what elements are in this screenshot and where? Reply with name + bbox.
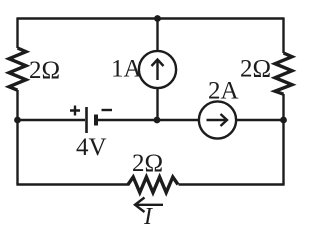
wire middle left segment [18,119,86,121]
battery V1 long plate (+) [85,107,88,133]
wire right vertical upper [282,17,284,53]
svg-text:2Ω: 2Ω [240,56,271,83]
wire bottom left segment [16,183,129,185]
svg-text:4V: 4V [76,134,107,161]
wire 1A branch upper [156,19,158,52]
wire left vertical upper (top corner to resistor) [16,17,18,48]
resistor R3 2ohm bottom [128,177,178,193]
wire bottom right segment [179,183,285,185]
wire top horizontal [18,17,284,19]
current source U1 1A circle [139,51,176,88]
arrow inside 2A (right) [207,119,227,121]
svg-text:1A: 1A [111,56,142,83]
node junction top (1A branch) [154,15,161,22]
wire middle center segment [98,119,199,121]
svg-text:2Ω: 2Ω [132,150,163,177]
svg-text:2A: 2A [208,78,239,105]
wire right vertical lower [282,94,284,185]
minus sign [102,109,113,111]
plus sign [70,106,80,116]
current arrow I (left) [136,204,163,206]
battery V1 short plate (-) [94,115,98,126]
node junction left-middle [14,117,21,124]
svg-text:I: I [143,204,153,230]
wire left vertical lower (resistor to bottom corner) [16,90,18,185]
node junction right-middle [280,117,287,124]
node junction middle (battery/2A) [154,117,161,124]
arrow inside 1A (up) [156,60,158,80]
current source U2 2A circle [199,101,236,138]
wire 1A branch lower [156,88,158,120]
resistor R1 2ohm left [9,48,26,90]
wire middle right segment [236,119,284,121]
svg-text:2Ω: 2Ω [29,57,60,84]
resistor R2 2ohm right [275,53,292,94]
